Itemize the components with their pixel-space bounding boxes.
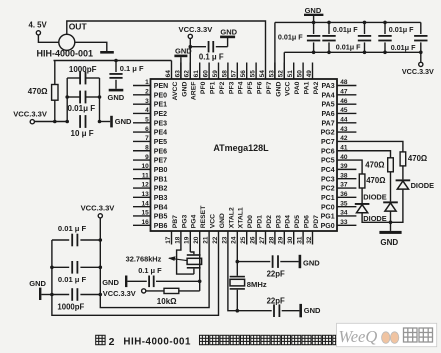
- pin 5 PE3 (left): [133, 116, 167, 127]
- svg-text:GND: GND: [108, 93, 125, 102]
- svg-text:PC1: PC1: [321, 195, 335, 202]
- pin 1 PEN (left): [133, 79, 168, 90]
- svg-text:22pF: 22pF: [267, 269, 285, 278]
- svg-text:13: 13: [141, 191, 149, 198]
- svg-text:62: 62: [184, 70, 191, 78]
- svg-text:PA6: PA6: [321, 111, 334, 118]
- svg-text:PF0: PF0: [200, 81, 207, 94]
- svg-text:6: 6: [145, 126, 149, 133]
- power terminal VCC 3.3V (left block): [81, 203, 116, 218]
- svg-text:4: 4: [145, 107, 149, 114]
- svg-text:PB5: PB5: [154, 214, 168, 221]
- ground (22pF bottom): [299, 304, 321, 317]
- capacitor 10uF: [65, 115, 101, 138]
- wire VCC bus (bottom) to pin 52: [284, 52, 421, 79]
- wire sensor OUT to pin 54 PF7: [67, 21, 266, 79]
- ground (top bus): [304, 6, 323, 22]
- svg-text:49: 49: [306, 70, 313, 78]
- svg-text:VCC.3.3V: VCC.3.3V: [81, 203, 116, 212]
- svg-text:PD4: PD4: [285, 215, 292, 228]
- svg-text:GND: GND: [115, 117, 132, 126]
- wire AVCC net to pin 64: [54, 61, 172, 80]
- svg-text:0.01 μ F: 0.01 μ F: [58, 275, 87, 284]
- caption: figure 2 HIH-4000-001 sensor-MCU interface circuit: [96, 335, 342, 348]
- svg-text:PA4: PA4: [321, 92, 334, 99]
- svg-text:VCC.3.3V: VCC.3.3V: [179, 25, 214, 34]
- svg-text:0.1 μ F: 0.1 μ F: [138, 266, 162, 275]
- pin 29 PD4 (bottom): [278, 215, 292, 245]
- svg-text:OUT: OUT: [69, 22, 88, 32]
- capacitor 0.01uF (left block mid): [50, 261, 102, 284]
- svg-text:PEN: PEN: [154, 83, 168, 90]
- svg-text:32.768kHz: 32.768kHz: [126, 255, 162, 264]
- wire AREF to pin 62: [189, 39, 191, 80]
- wire resistor to diode (PC5): [361, 188, 363, 203]
- svg-text:DIODE: DIODE: [411, 181, 434, 190]
- svg-text:PD7: PD7: [313, 215, 320, 228]
- pin 35 PC0 (right): [321, 200, 356, 211]
- svg-text:8MHz: 8MHz: [247, 280, 267, 289]
- pin 58 PF3 (top): [221, 63, 235, 95]
- svg-text:PG2: PG2: [321, 130, 335, 137]
- svg-text:GND: GND: [181, 82, 188, 97]
- svg-text:8: 8: [145, 144, 149, 151]
- svg-text:PB0: PB0: [154, 167, 168, 174]
- node OUT label: [69, 22, 88, 32]
- svg-text:PF3: PF3: [228, 81, 235, 94]
- svg-text:45: 45: [340, 107, 348, 114]
- capacitor 1000pF (left block bottom): [50, 288, 102, 311]
- svg-text:PC4: PC4: [321, 167, 335, 174]
- pin 49 PA2 (top): [306, 63, 320, 95]
- svg-text:44: 44: [340, 116, 348, 123]
- svg-text:VCC: VCC: [285, 82, 292, 96]
- svg-text:7: 7: [145, 135, 149, 142]
- label 0.01uF (bus top 1): [333, 25, 358, 34]
- diode D1 (PC7): [396, 179, 434, 189]
- svg-text:3: 3: [145, 98, 149, 105]
- wire pin 21 VCC to left rail: [100, 218, 209, 308]
- capacitor 22pF (XTAL2): [237, 296, 299, 317]
- svg-text:PC6: PC6: [321, 148, 335, 155]
- pin 18 PG3 (bottom): [174, 214, 188, 243]
- pin 39 PC4 (right): [321, 163, 356, 174]
- svg-text:PD0: PD0: [247, 215, 254, 228]
- wire pin 41 PC6 branch: [337, 151, 391, 158]
- ground (left block): [29, 279, 52, 300]
- pin 28 PD3 (bottom): [268, 215, 282, 245]
- svg-text:HIH-4000-001: HIH-4000-001: [37, 49, 94, 59]
- wire 10uF to ground: [100, 121, 111, 123]
- svg-text:WeeQ: WeeQ: [339, 327, 378, 346]
- svg-text:64: 64: [165, 70, 172, 78]
- svg-text:PE1: PE1: [154, 102, 167, 109]
- svg-text:25: 25: [240, 236, 247, 244]
- wire diode D2 to ground rail: [390, 211, 392, 222]
- svg-text:PE7: PE7: [154, 158, 167, 165]
- svg-text:37: 37: [340, 182, 348, 189]
- svg-text:2: 2: [145, 89, 149, 96]
- svg-text:470Ω: 470Ω: [366, 176, 385, 185]
- pin 32 PD7 (bottom): [306, 215, 320, 245]
- svg-text:PF4: PF4: [238, 81, 245, 94]
- svg-text:17: 17: [165, 236, 172, 244]
- power terminal 4.5V: [29, 21, 48, 35]
- ground (RESET cap): [102, 276, 127, 288]
- power terminal VCC 3.3V (AREF): [179, 25, 214, 39]
- svg-text:56: 56: [240, 70, 247, 78]
- pin 56 PF5 (top): [240, 63, 254, 95]
- svg-text:PG4: PG4: [191, 214, 198, 228]
- svg-text:GND: GND: [303, 258, 320, 267]
- svg-text:14: 14: [141, 200, 149, 207]
- pin 23 XTAL2 (bottom): [221, 207, 235, 244]
- wire pin 22 GND to bottom rail: [52, 231, 219, 315]
- node junction diode ground rail: [389, 221, 393, 225]
- pin 27 PD2 (bottom): [259, 215, 273, 245]
- svg-text:PC2: PC2: [321, 186, 335, 193]
- svg-text:PD6: PD6: [304, 215, 311, 228]
- label 0.01uF (bus left): [278, 32, 303, 41]
- pin 63 GND (top): [174, 63, 188, 97]
- svg-text:PD3: PD3: [275, 215, 282, 228]
- ground (sensor cap block): [110, 116, 132, 128]
- svg-text:PA0: PA0: [294, 81, 301, 94]
- svg-text:PE6: PE6: [154, 148, 167, 155]
- svg-text:22pF: 22pF: [267, 296, 285, 305]
- pin 51 PA0 (top): [287, 63, 301, 95]
- wire resistor to diode (PC7): [402, 166, 404, 180]
- svg-text:VCC.3.3V: VCC.3.3V: [103, 289, 136, 298]
- svg-text:0.1 μ F: 0.1 μ F: [120, 64, 144, 73]
- label 0.01uF (bus top 2): [389, 25, 414, 34]
- resistor 10k ohm (RESET pullup): [146, 288, 200, 306]
- svg-text:470Ω: 470Ω: [408, 154, 427, 163]
- svg-text:PA7: PA7: [321, 120, 334, 127]
- wire GND bus (top) to pin 53: [275, 22, 421, 79]
- svg-text:PF2: PF2: [219, 81, 226, 94]
- svg-text:PC0: PC0: [321, 204, 335, 211]
- svg-text:PG0: PG0: [321, 223, 335, 230]
- pin 42 PC7 (right): [321, 135, 348, 146]
- svg-text:GND: GND: [219, 213, 226, 228]
- svg-text:0.01μ F: 0.01μ F: [68, 104, 96, 113]
- svg-text:AVCC: AVCC: [172, 82, 179, 101]
- svg-text:33: 33: [340, 219, 348, 226]
- pin 25 PD0 (bottom): [240, 215, 254, 245]
- wire cap block left rail: [66, 78, 68, 122]
- wire diode D3 to ground rail: [362, 213, 390, 223]
- svg-text:PD5: PD5: [294, 215, 301, 228]
- pin 50 PA1 (top): [297, 63, 311, 95]
- node junction XTAL crystal bottom: [236, 309, 240, 313]
- svg-text:46: 46: [340, 98, 348, 105]
- svg-text:38: 38: [340, 172, 348, 179]
- resistor 470 ohm (sensor): [28, 61, 58, 122]
- svg-text:PE5: PE5: [154, 139, 167, 146]
- pin 62 AREF (top): [184, 63, 198, 101]
- svg-text:DIODE: DIODE: [363, 193, 386, 202]
- svg-text:PB1: PB1: [154, 176, 168, 183]
- label 0.01uF (bus bottom 1): [336, 43, 361, 52]
- capacitor 0.01uF (sensor block): [65, 91, 101, 113]
- wire pin 18 PG3 to crystal low side: [177, 231, 194, 274]
- pin 61 PF0 (top): [193, 63, 207, 95]
- wire 4.5V to sensor: [38, 35, 58, 42]
- pin 24 XTAL1 (bottom): [231, 207, 245, 244]
- pin 41 PC6 (right): [321, 144, 348, 155]
- crystal Y2 32.768kHz: [187, 254, 202, 274]
- svg-text:VCC.3.3V: VCC.3.3V: [13, 109, 48, 118]
- svg-text:PG3: PG3: [181, 214, 188, 228]
- svg-text:GND: GND: [220, 28, 237, 37]
- svg-text:PF7: PF7: [266, 81, 273, 94]
- node junction RESET: [198, 280, 202, 284]
- wire pin 19 PG4 to crystal top: [190, 231, 194, 254]
- svg-text:GND: GND: [380, 238, 398, 247]
- svg-text:57: 57: [231, 70, 238, 78]
- svg-text:50: 50: [297, 70, 304, 78]
- pin 22 GND (bottom): [212, 213, 226, 244]
- capacitor 0.01uF bus #3: [358, 21, 371, 55]
- ground (22pF top): [299, 255, 321, 268]
- svg-text:GND: GND: [29, 279, 46, 288]
- pin 21 VCC (bottom): [203, 214, 217, 244]
- svg-text:PA3: PA3: [321, 83, 334, 90]
- wire diode D1 to ground rail: [391, 189, 403, 222]
- ground (diodes): [379, 222, 401, 247]
- pin 20 RESET (bottom): [193, 205, 207, 244]
- svg-text:48: 48: [340, 79, 348, 86]
- svg-text:VCC: VCC: [210, 214, 217, 228]
- pin 38 PC3 (right): [321, 172, 356, 183]
- pin 64 AVCC (top): [165, 70, 179, 101]
- svg-text:32: 32: [306, 236, 313, 244]
- pin 15 PB5 (left): [133, 210, 168, 221]
- svg-text:PB4: PB4: [154, 204, 168, 211]
- watermark WeeQoo: [337, 323, 437, 346]
- capacitor 0.01uF bus #1: [307, 21, 320, 55]
- svg-text:HIH-4000-001: HIH-4000-001: [123, 337, 191, 348]
- pin 40 PC5 (right): [321, 154, 348, 165]
- svg-text:5: 5: [145, 116, 149, 123]
- svg-text:ATmega128L: ATmega128L: [213, 143, 269, 153]
- svg-text:0.01μ F: 0.01μ F: [391, 43, 416, 52]
- label 0.01uF (bus bottom 2): [391, 43, 416, 52]
- svg-text:GND: GND: [102, 278, 119, 287]
- svg-text:PE3: PE3: [154, 120, 167, 127]
- wire pin 23 XTAL2 to crystal bottom: [228, 231, 237, 311]
- capacitor 0.1uF (AVCC decoupling): [109, 61, 144, 89]
- svg-text:51: 51: [287, 70, 294, 78]
- node junction resistor/VCC wire: [53, 120, 57, 124]
- resistor 470 ohm (branch PC5): [359, 174, 385, 188]
- humidity sensor HIH-4000-001: [37, 34, 94, 58]
- pin 2 PE0 (left): [133, 89, 167, 100]
- svg-text:1: 1: [145, 79, 149, 86]
- svg-text:PB2: PB2: [154, 186, 168, 193]
- svg-text:15: 15: [141, 210, 149, 217]
- resistor 470 ohm (branch PC6): [365, 158, 393, 172]
- MCU U1 ATmega128L body: [151, 79, 338, 231]
- pin 7 PE5 (left): [133, 135, 167, 146]
- svg-text:VCC.3.3V: VCC.3.3V: [402, 67, 434, 76]
- svg-text:PC3: PC3: [321, 176, 335, 183]
- svg-text:PD1: PD1: [257, 215, 264, 228]
- svg-text:PA5: PA5: [321, 102, 334, 109]
- power terminal VCC 3.3V (top right): [402, 52, 434, 76]
- pin 47 PA4 (right): [321, 89, 356, 100]
- svg-text:PF6: PF6: [257, 81, 264, 94]
- pin 37 PC2 (right): [321, 182, 356, 193]
- svg-text:58: 58: [221, 70, 228, 78]
- svg-text:PA2: PA2: [313, 81, 320, 94]
- node junction AVCC/cap: [114, 59, 118, 63]
- svg-text:1000pF: 1000pF: [57, 303, 84, 312]
- power terminal VCC 3.3V (RESET pullup): [103, 289, 146, 298]
- wire cap block right rail: [99, 78, 101, 122]
- svg-text:55: 55: [250, 70, 257, 78]
- node junction AREF: [189, 45, 193, 49]
- wire resistor to diode (PC6): [390, 172, 392, 202]
- svg-text:10kΩ: 10kΩ: [157, 297, 177, 306]
- pin 54 PF7 (top): [259, 70, 273, 94]
- wire sensor to ground: [75, 42, 107, 51]
- pin 43 PG2 (right): [321, 126, 357, 137]
- svg-text:AREF: AREF: [191, 82, 198, 101]
- pin 19 PG4 (bottom): [184, 214, 198, 243]
- svg-text:34: 34: [340, 210, 348, 217]
- svg-text:16: 16: [141, 219, 149, 226]
- diode D3 (PC5): [355, 203, 387, 223]
- svg-text:470Ω: 470Ω: [28, 87, 48, 96]
- svg-text:2: 2: [109, 336, 115, 348]
- svg-text:9: 9: [145, 154, 149, 161]
- pin 36 PC1 (right): [321, 191, 356, 202]
- pin 59 PF2 (top): [212, 63, 226, 95]
- svg-text:11: 11: [142, 172, 149, 179]
- svg-text:PE2: PE2: [154, 111, 167, 118]
- svg-text:RESET: RESET: [200, 205, 207, 229]
- svg-text:54: 54: [259, 70, 266, 78]
- svg-text:31: 31: [297, 236, 304, 244]
- pin 3 PE1 (left): [133, 98, 167, 109]
- crystal Y1 8MHz: [230, 276, 267, 311]
- svg-text:PB6: PB6: [154, 223, 168, 230]
- svg-text:60: 60: [203, 70, 210, 78]
- svg-text:0.01μ F: 0.01μ F: [278, 32, 303, 41]
- svg-text:PB7: PB7: [172, 215, 179, 228]
- pin 10 PB0 (left): [133, 163, 168, 174]
- pin 6 PE4 (left): [133, 126, 167, 137]
- svg-text:PB3: PB3: [154, 195, 168, 202]
- svg-text:0.01 μ F: 0.01 μ F: [58, 224, 87, 233]
- capacitor 0.01uF bus #2: [322, 21, 335, 55]
- ground (sensor): [100, 51, 114, 54]
- pin 8 PE6 (left): [133, 144, 167, 155]
- svg-text:63: 63: [174, 70, 181, 78]
- pin 13 PB3 (left): [133, 191, 168, 202]
- svg-text:PG1: PG1: [321, 214, 335, 221]
- svg-text:PE0: PE0: [154, 92, 167, 99]
- svg-text:XTAL2: XTAL2: [228, 207, 235, 228]
- svg-text:PA1: PA1: [304, 81, 311, 94]
- svg-text:27: 27: [259, 236, 266, 244]
- pin 33 PG0 (right): [321, 219, 357, 230]
- svg-text:0.01μ F: 0.01μ F: [336, 43, 361, 52]
- pin 53 GND (top): [268, 63, 282, 97]
- capacitor 22pF (XTAL1): [237, 255, 298, 278]
- svg-text:XTAL1: XTAL1: [238, 207, 245, 228]
- svg-text:43: 43: [340, 126, 348, 133]
- pin 26 PD1 (bottom): [250, 215, 264, 245]
- svg-text:PF1: PF1: [210, 81, 217, 94]
- svg-text:39: 39: [340, 163, 348, 170]
- pin 60 PF1 (top): [203, 63, 217, 95]
- pin 30 PD5 (bottom): [287, 215, 301, 245]
- wire pin 40 PC5 branch: [337, 160, 362, 174]
- svg-text:0.01μ F: 0.01μ F: [333, 25, 358, 34]
- pin 31 PD6 (bottom): [297, 215, 311, 245]
- svg-text:470Ω: 470Ω: [365, 160, 384, 169]
- pin 14 PB4 (left): [133, 200, 168, 211]
- svg-text:29: 29: [278, 236, 285, 244]
- svg-text:PF5: PF5: [247, 81, 254, 94]
- pin 16 PB6 (left): [133, 219, 168, 230]
- svg-text:35: 35: [340, 200, 348, 207]
- svg-text:30: 30: [287, 236, 294, 244]
- capacitor 0.01uF bus #4: [378, 21, 391, 55]
- pin 12 PB2 (left): [133, 182, 168, 193]
- label 32.768kHz with arrow: [126, 255, 187, 264]
- pin 45 PA6 (right): [321, 107, 356, 118]
- svg-text:10: 10: [141, 163, 149, 170]
- ground (AREF cap): [220, 28, 238, 47]
- svg-text:PE4: PE4: [154, 130, 167, 137]
- svg-text:GND: GND: [304, 306, 321, 315]
- pin 34 PG1 (right): [321, 210, 357, 221]
- svg-text:26: 26: [250, 236, 257, 244]
- svg-text:PD2: PD2: [266, 215, 273, 228]
- svg-text:59: 59: [212, 70, 219, 78]
- capacitor 0.1uF (RESET): [127, 266, 199, 287]
- svg-text:12: 12: [141, 182, 149, 189]
- pin 11 PB1 (left): [133, 172, 168, 183]
- capacitor 1000pF: [67, 65, 99, 85]
- ground (pin 63): [174, 46, 192, 79]
- pin 48 PA3 (right): [321, 79, 356, 90]
- svg-text:47: 47: [340, 89, 348, 96]
- capacitor 0.1uF (AREF): [190, 41, 227, 62]
- pin 57 PF4 (top): [231, 63, 245, 95]
- diode D2 (PC6): [363, 193, 398, 212]
- node junction XTAL1: [236, 260, 240, 264]
- svg-text:0.1 μ F: 0.1 μ F: [199, 53, 224, 62]
- svg-text:1000pF: 1000pF: [69, 65, 97, 74]
- svg-text:10 μ F: 10 μ F: [71, 129, 94, 138]
- svg-text:28: 28: [268, 236, 275, 244]
- svg-text:GND: GND: [275, 82, 282, 97]
- pin 9 PE7 (left): [133, 154, 167, 165]
- svg-text:0.01μ F: 0.01μ F: [389, 25, 414, 34]
- wire pin 42 PC7 branch: [337, 141, 403, 151]
- svg-text:4. 5V: 4. 5V: [29, 21, 48, 30]
- pin 46 PA5 (right): [321, 98, 356, 109]
- capacitor 0.01uF (left block top): [52, 224, 102, 246]
- svg-text:36: 36: [340, 191, 348, 198]
- svg-text:61: 61: [193, 70, 200, 78]
- wire pin 20 RESET down: [199, 231, 201, 291]
